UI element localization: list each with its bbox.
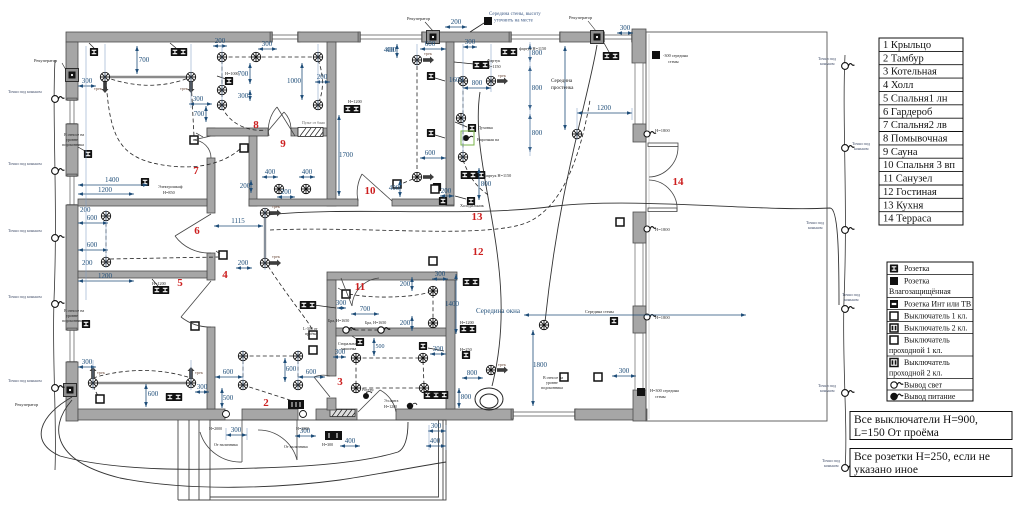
wire bedroom2 lights	[105, 77, 191, 85]
svg-text:1400: 1400	[445, 300, 460, 308]
svg-text:От наличника: От наличника	[214, 442, 238, 447]
svg-text:H=250: H=250	[460, 347, 472, 352]
kitchen west wall	[446, 42, 454, 205]
svg-text:200: 200	[441, 187, 452, 195]
dimension	[563, 46, 567, 130]
switch L-300 1	[309, 331, 317, 339]
svg-text:600: 600	[87, 241, 98, 249]
track feed	[188, 367, 195, 378]
dimension 500	[220, 388, 224, 408]
svg-text:2: 2	[263, 397, 269, 409]
svg-text:1200: 1200	[98, 186, 113, 194]
svg-text:H=1200: H=1200	[348, 99, 362, 104]
svg-text:Середина: Середина	[551, 78, 573, 84]
svg-text:600: 600	[425, 40, 436, 48]
door vestibule 2	[258, 420, 297, 460]
outlet kitchen west	[439, 197, 447, 205]
svg-text:проходной 1 кл.: проходной 1 кл.	[889, 346, 942, 355]
boiler east wall	[446, 280, 455, 409]
porch outline	[210, 420, 446, 500]
track feed	[497, 78, 508, 85]
router device	[363, 393, 369, 399]
bedroom2 south wall	[78, 199, 207, 206]
light wardrobe 2	[101, 257, 110, 266]
outlet kitchen apron 3	[461, 171, 486, 179]
left wall window 1	[67, 98, 77, 126]
switch bathroom	[342, 290, 350, 298]
svg-text:Точки под коньком: Точки под коньком	[8, 378, 42, 383]
dimension 200	[213, 44, 227, 48]
ridge point east	[842, 306, 855, 313]
svg-text:500: 500	[376, 344, 385, 350]
track feed	[188, 82, 195, 93]
ridge line east	[844, 55, 846, 468]
switch kitchen	[431, 185, 439, 193]
dimension 500	[372, 338, 376, 356]
dimension 1200	[78, 279, 134, 283]
svg-text:1600: 1600	[449, 76, 464, 84]
door vestibule 1	[200, 420, 242, 462]
outlet bedroom1 south	[166, 393, 182, 401]
dimension 600	[420, 47, 446, 51]
door bedroom3	[357, 174, 392, 201]
outlet boiler H=300	[424, 391, 449, 399]
dimension 300	[78, 84, 96, 88]
svg-text:Все розетки H=250, если не: Все розетки H=250, если не	[854, 451, 990, 463]
sconce bathroom 1	[343, 327, 355, 333]
southeast corner column	[633, 390, 646, 421]
svg-text:Середина стены, высоту: Середина стены, высоту	[489, 12, 541, 17]
wire hall to passage switch	[268, 266, 313, 331]
svg-text:H=1150: H=1150	[487, 64, 501, 69]
svg-text:коньком: коньком	[854, 146, 869, 151]
svg-text:Вывод питание: Вывод питание	[904, 392, 956, 401]
svg-text:трек: трек	[272, 204, 281, 209]
bottom wall segment 2	[242, 409, 298, 420]
svg-text:подоконника: подоконника	[541, 385, 563, 390]
svg-text:1200: 1200	[98, 272, 113, 280]
dimension 700	[135, 46, 139, 74]
svg-text:600: 600	[223, 368, 234, 376]
entrance threshold hatch	[330, 410, 355, 417]
dimension 600	[298, 375, 325, 379]
svg-text:300: 300	[238, 92, 249, 100]
svg-text:проёма: проёма	[305, 331, 317, 336]
left wall segment 1	[66, 42, 78, 100]
wire bedroom1 switch drop	[93, 386, 98, 396]
svg-text:Розетка Инт или ТВ: Розетка Инт или ТВ	[904, 300, 971, 309]
room list table	[879, 38, 963, 225]
svg-text:трек: трек	[94, 86, 103, 91]
svg-text:трек: трек	[195, 370, 204, 375]
svg-text:700: 700	[194, 110, 205, 118]
wardrobe south wall	[78, 271, 207, 278]
svg-text:400: 400	[345, 437, 356, 445]
svg-text:Розетка: Розетка	[904, 277, 930, 286]
outlet boiler east	[419, 342, 427, 350]
outlet living 2gang	[463, 278, 479, 286]
wire bathroom lights	[432, 294, 434, 320]
light L2 bedroom2	[186, 72, 195, 81]
svg-text:400: 400	[265, 168, 276, 176]
hall west wall segment 3	[207, 253, 215, 280]
legend switch symbol	[890, 336, 898, 344]
terrace column 1	[633, 124, 646, 142]
junction top middle	[484, 17, 492, 25]
terrace column 3	[633, 306, 646, 333]
svg-text:H=1200: H=1200	[152, 281, 166, 286]
legend waterproof outlet symbol	[890, 277, 898, 285]
svg-text:400: 400	[384, 46, 395, 54]
door bathroom	[341, 278, 379, 306]
top wall window 2	[358, 32, 424, 42]
svg-text:300: 300	[231, 426, 242, 434]
svg-text:300: 300	[435, 270, 446, 278]
dimension 1400	[78, 183, 148, 187]
bottom wall segment 5	[575, 409, 647, 420]
svg-text:коньком: коньком	[808, 225, 823, 230]
outlet bedroom3 east 2	[427, 129, 435, 137]
svg-text:800: 800	[472, 79, 483, 87]
sauna stove hatch	[298, 128, 323, 137]
svg-text:фартук H=1150: фартук H=1150	[519, 46, 546, 51]
svg-text:Середина окна: Середина окна	[476, 307, 521, 315]
dimension 300	[333, 355, 346, 359]
wire washroom lights row	[222, 56, 318, 58]
dimension 400	[426, 444, 446, 448]
dimension 800	[463, 86, 491, 90]
dimension 1400	[454, 274, 458, 334]
svg-text:подоконника: подоконника	[62, 318, 84, 323]
light wardrobe 1	[101, 211, 110, 220]
svg-text:300: 300	[465, 38, 476, 46]
ridge point west	[52, 168, 65, 175]
svg-text:Середина стены: Середина стены	[585, 309, 614, 314]
dimension 300	[428, 429, 446, 433]
dimension 700	[204, 106, 208, 122]
switch terrace wall	[616, 218, 624, 226]
svg-text:трек: трек	[97, 370, 106, 375]
svg-text:стены: стены	[668, 59, 679, 64]
svg-text:-300 середина: -300 середина	[663, 53, 688, 58]
svg-text:800: 800	[532, 129, 543, 137]
svg-text:11: 11	[355, 281, 365, 293]
dimension 800	[477, 168, 481, 200]
light bedroom3 1	[412, 55, 421, 64]
switch living north	[429, 257, 437, 265]
svg-text:300: 300	[82, 358, 93, 366]
light kitchen 1	[458, 76, 467, 85]
legend tv outlet symbol	[890, 300, 898, 308]
svg-text:4 Холл: 4 Холл	[883, 80, 913, 91]
svg-text:H=2000: H=2000	[209, 426, 222, 431]
light living 1	[539, 320, 548, 329]
dimension 300	[189, 102, 212, 106]
svg-text:Электрошкаф: Электрошкаф	[158, 184, 183, 189]
bottom wall window	[511, 409, 577, 419]
track feed	[497, 367, 508, 374]
dimension 200	[445, 25, 467, 29]
svg-text:7 Спальня2 лв: 7 Спальня2 лв	[883, 120, 947, 131]
svg-text:Выключатель 2 кл.: Выключатель 2 кл.	[904, 324, 967, 333]
dimension	[524, 313, 746, 317]
dimension 300	[617, 31, 633, 35]
svg-text:L=150 От проёма: L=150 От проёма	[854, 427, 939, 439]
electrical panel device	[407, 403, 413, 409]
dimension 200	[440, 194, 454, 198]
dimension 700	[248, 63, 252, 84]
svg-text:Розетка: Розетка	[904, 264, 930, 273]
top wall window 1	[270, 32, 300, 42]
dimension 600	[215, 375, 243, 379]
door boiler west	[314, 375, 330, 397]
outlet bedroom1 west	[82, 320, 90, 328]
wire washroom to switch	[222, 107, 266, 130]
svg-text:500: 500	[223, 394, 234, 402]
legend switch 2 symbol	[890, 359, 898, 367]
dimension 300	[612, 374, 636, 378]
light bedroom1 2	[186, 378, 195, 387]
svg-text:коньком: коньком	[820, 61, 835, 66]
outlet kitchen apron 1	[473, 61, 489, 69]
svg-text:трек: трек	[180, 86, 189, 91]
wire washroom right col	[318, 60, 323, 105]
wire porch run	[59, 400, 446, 487]
door wardrobe	[175, 214, 211, 253]
svg-text:7: 7	[193, 165, 199, 177]
terrace wall light 1	[644, 131, 656, 137]
svg-text:13: 13	[472, 211, 484, 223]
wire washroom lights col	[221, 60, 223, 105]
switch sauna	[240, 144, 248, 152]
svg-text:4: 4	[222, 269, 228, 281]
switch living south 1	[560, 373, 568, 381]
light sauna 2	[301, 184, 310, 193]
recuperator west bottom	[64, 384, 77, 397]
dimension 300	[463, 45, 477, 49]
dimension 1000	[300, 63, 304, 100]
svg-text:200: 200	[238, 259, 249, 267]
svg-text:600: 600	[148, 390, 159, 398]
porch outlet black	[325, 431, 342, 440]
recuperator west top	[66, 69, 79, 82]
dimension 300	[195, 390, 209, 394]
dimension 800	[457, 388, 461, 408]
ridge point west	[52, 385, 65, 392]
svg-text:1800: 1800	[533, 361, 548, 369]
door washroom	[268, 112, 291, 131]
svg-text:H=300: H=300	[322, 442, 333, 447]
light washroom 6	[313, 100, 322, 109]
terrace east colonnade	[635, 63, 643, 390]
dimension 300	[430, 352, 446, 356]
ridge point west	[52, 96, 65, 103]
svg-text:коньком: коньком	[824, 463, 839, 468]
svg-text:2 Тамбур: 2 Тамбур	[883, 53, 924, 64]
ridge point east	[842, 390, 855, 397]
outlet living H=250	[462, 351, 470, 359]
svg-text:Фартук: Фартук	[487, 58, 501, 63]
svg-text:стены: стены	[655, 394, 666, 399]
svg-text:Рекуператор: Рекуператор	[407, 16, 431, 21]
washroom south wall east	[323, 128, 327, 136]
svg-text:H=850: H=850	[163, 190, 175, 195]
porch steps	[178, 420, 210, 500]
svg-text:Рекуператор: Рекуператор	[15, 402, 39, 407]
hob outlet in green box	[461, 131, 474, 145]
svg-text:Роутер: Роутер	[362, 387, 374, 392]
svg-text:1000: 1000	[287, 77, 302, 85]
legend light point symbol	[891, 382, 903, 388]
washroom south wall west	[207, 128, 268, 136]
svg-text:уточнить на месте: уточнить на месте	[494, 19, 534, 24]
svg-text:300: 300	[262, 40, 273, 48]
svg-text:700: 700	[360, 305, 371, 313]
dimension 600	[78, 221, 108, 225]
svg-text:простенка: простенка	[551, 85, 574, 91]
svg-text:Духовка: Духовка	[478, 125, 493, 130]
track feed	[270, 210, 281, 217]
svg-text:указано иное: указано иное	[854, 464, 918, 476]
bathroom west wall	[327, 280, 336, 376]
hall west wall segment 2	[207, 158, 215, 213]
svg-text:300: 300	[336, 299, 347, 307]
svg-text:Точки под коньком: Точки под коньком	[8, 294, 42, 299]
outlet porch H=300	[329, 432, 337, 440]
svg-text:Эл.щита: Эл.щита	[384, 398, 399, 403]
svg-text:11 Санузел: 11 Санузел	[883, 174, 932, 185]
svg-text:200: 200	[317, 73, 328, 81]
outlet kitchen north	[603, 52, 619, 60]
switch hall	[219, 251, 227, 259]
track feed	[102, 82, 109, 93]
outer top wall segment B	[298, 32, 360, 42]
dimension 400	[340, 444, 360, 448]
svg-text:3 Котельная: 3 Котельная	[883, 67, 937, 78]
svg-text:200: 200	[400, 319, 411, 327]
dimension 300	[432, 277, 448, 281]
hall west wall top stub	[207, 128, 215, 136]
svg-text:подоконника: подоконника	[62, 142, 84, 147]
light bathroom 1	[428, 286, 437, 295]
svg-text:проходной 2 кл.: проходной 2 кл.	[889, 368, 942, 377]
wire to bedroom2 switch	[191, 79, 194, 136]
dimension 400	[262, 175, 278, 179]
outlet living H=1200	[460, 325, 476, 333]
bedroom3 south wall	[392, 199, 454, 206]
dimension 400	[395, 44, 399, 58]
svg-text:13 Кухня: 13 Кухня	[883, 200, 923, 211]
outlet bedroom3 east 1	[427, 72, 435, 80]
svg-text:H=1200: H=1200	[384, 404, 397, 409]
light boiler 2	[418, 353, 427, 362]
track line bedroom1	[93, 382, 191, 384]
svg-text:10 Спальня 3 вп: 10 Спальня 3 вп	[883, 160, 955, 171]
wire from recuperator to boiler room	[41, 397, 408, 469]
bottom wall segment 3	[316, 409, 357, 420]
left wall segment 3	[66, 205, 78, 330]
svg-text:H=1800: H=1800	[655, 128, 671, 133]
bathroom north wall	[327, 272, 457, 280]
svg-text:600: 600	[425, 149, 436, 157]
ridge point west	[52, 301, 65, 308]
legend switch symbol	[890, 312, 898, 320]
dimension 800	[528, 66, 532, 110]
dimension 1115	[214, 224, 263, 228]
light washroom 1	[217, 52, 226, 61]
outlet electro cabinet	[141, 178, 149, 186]
top wall window 3	[509, 32, 562, 42]
dimension 1700	[337, 115, 341, 196]
svg-text:8 Помывочная: 8 Помывочная	[883, 134, 948, 145]
svg-text:9: 9	[280, 138, 286, 150]
svg-text:H=300 середина: H=300 середина	[650, 388, 679, 393]
outlet bedroom2 north	[90, 48, 98, 56]
note box 1	[850, 412, 1012, 440]
ridge line west	[54, 60, 56, 470]
light washroom 5	[217, 100, 226, 109]
top wall window 4	[602, 32, 634, 42]
svg-text:200: 200	[240, 182, 251, 190]
svg-text:200: 200	[215, 37, 226, 45]
dimension 1800	[531, 330, 535, 406]
light living 3	[486, 365, 495, 374]
dimension 600	[144, 384, 148, 407]
svg-text:700: 700	[139, 56, 150, 64]
extension lines	[86, 42, 632, 450]
svg-text:800: 800	[532, 84, 543, 92]
svg-text:300: 300	[193, 95, 204, 103]
terrace double door	[648, 143, 678, 212]
dimension 400	[299, 175, 315, 179]
symbol legend table	[887, 262, 973, 401]
wire bathroom switch	[349, 292, 430, 297]
light boiler 1	[351, 353, 360, 362]
dimension 200	[410, 316, 414, 331]
svg-text:Рекуператор: Рекуператор	[569, 15, 593, 20]
light washroom 3	[313, 52, 322, 61]
outlet bedroom2 north 2	[171, 48, 187, 56]
light boiler 3	[351, 383, 360, 392]
svg-text:300: 300	[431, 422, 442, 430]
svg-text:фартук H=1150: фартук H=1150	[484, 173, 511, 178]
dimension 600	[78, 248, 108, 252]
junction box	[332, 435, 334, 437]
svg-text:200: 200	[451, 18, 462, 26]
ridge point west	[52, 235, 65, 242]
wire kitchen col	[462, 84, 464, 154]
door bedroom1	[181, 281, 211, 327]
bottom wall segment 4	[396, 409, 513, 420]
light kitchen 2	[486, 76, 495, 85]
wire wardrobe lights	[105, 216, 107, 262]
dimension 700	[351, 312, 379, 316]
svg-text:коньком: коньком	[820, 388, 835, 393]
svg-text:H=1000: H=1000	[225, 71, 239, 76]
track feed	[90, 367, 97, 378]
svg-text:5 Спальня1 лн: 5 Спальня1 лн	[883, 93, 948, 104]
svg-text:трек: трек	[272, 254, 281, 259]
light hall 1	[260, 208, 269, 217]
dimension 800	[528, 44, 532, 62]
outlet bedroom2 west	[84, 150, 92, 158]
svg-text:400: 400	[389, 184, 400, 192]
svg-text:200: 200	[82, 259, 93, 267]
svg-text:1400: 1400	[105, 176, 120, 184]
svg-text:Пульт от бани: Пульт от бани	[302, 121, 325, 125]
svg-text:H=2000: H=2000	[296, 426, 309, 431]
switch living south 2	[594, 373, 602, 381]
